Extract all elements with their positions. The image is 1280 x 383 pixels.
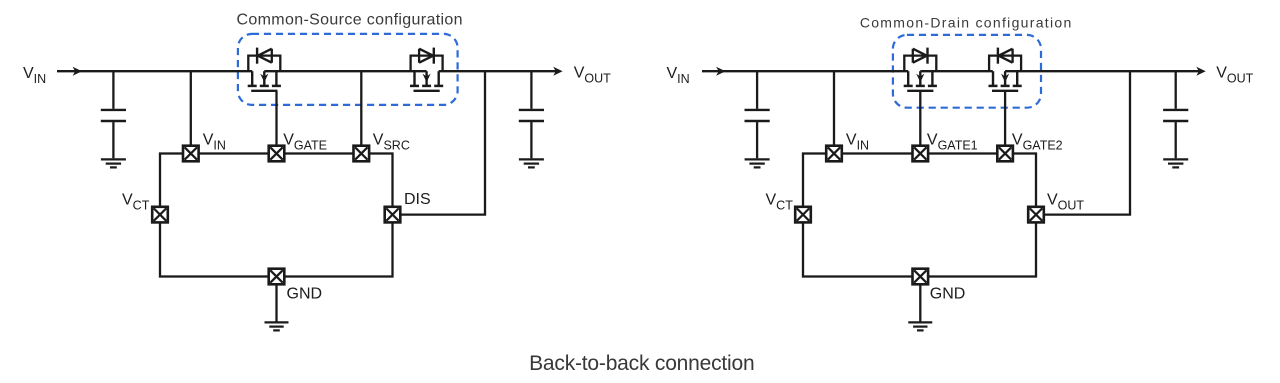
svg-text:VIN: VIN	[23, 65, 46, 86]
transistor Q4 (common-drain right FET)	[989, 48, 1022, 146]
pin GND (right controller)	[913, 269, 929, 285]
pin VIN (left controller)	[183, 146, 199, 162]
transistor Q3 (common-drain left FET)	[904, 48, 937, 146]
pin DIS (left controller)	[385, 207, 401, 223]
wire: DIS to VOUT rail (left circuit)	[400, 71, 485, 214]
output arrow (right circuit)	[1196, 67, 1205, 76]
capacitor C2 output (left circuit)	[519, 71, 544, 158]
pin VGATE1 (right controller)	[913, 146, 929, 162]
Q2 (common-source right FET) gate	[414, 90, 440, 92]
svg-text:VOUT: VOUT	[1216, 65, 1253, 86]
svg-text:VOUT: VOUT	[574, 65, 611, 86]
wire: VIN rail segments (right circuit)	[702, 70, 1200, 72]
Q2 (common-source right FET) body diode	[419, 48, 434, 64]
pin GND (left controller)	[269, 269, 285, 285]
svg-text:GND: GND	[287, 285, 323, 302]
input arrow (left circuit)	[73, 67, 82, 76]
ground (C2 output (left circuit) bottom)	[519, 159, 544, 167]
Q3 (common-drain left FET) body-diode loop wire	[904, 56, 936, 72]
svg-text:VIN: VIN	[203, 132, 226, 153]
wire: VIN rail segments (left circuit)	[57, 70, 557, 72]
svg-text:VIN: VIN	[667, 65, 690, 86]
controller U2 outline (right circuit)	[803, 154, 1036, 277]
pin VCT (left controller)	[152, 207, 168, 223]
Q4 (common-drain right FET) gate	[992, 91, 1018, 146]
capacitor C4 output (right circuit)	[1163, 71, 1188, 158]
ground (C3 input (right circuit) bottom)	[745, 159, 770, 167]
svg-text:DIS: DIS	[404, 191, 431, 208]
svg-text:GND: GND	[930, 285, 966, 302]
Q2 (common-source right FET) drain/body/source contacts	[410, 71, 443, 86]
svg-text:Common-Drain configuration: Common-Drain configuration	[860, 15, 1073, 31]
input arrow (right circuit)	[716, 67, 725, 76]
Q3 (common-drain left FET) body diode	[913, 48, 928, 64]
Q1 (common-source left FET) gate	[251, 91, 277, 146]
svg-text:Back-to-back connection: Back-to-back connection	[529, 352, 754, 375]
pin VGATE2 (right controller)	[997, 146, 1013, 162]
pin VGATE (left controller)	[269, 146, 285, 162]
wire: VIN pin riser (right circuit)	[833, 71, 835, 146]
blue dashed box (Common-Source pair)	[238, 34, 458, 105]
Q4 (common-drain right FET) drain/body/source contacts	[989, 71, 1022, 86]
ground (left controller GND)	[265, 284, 289, 330]
Q2 (common-source right FET) body-diode loop wire	[411, 56, 443, 72]
Q1 (common-source left FET) drain/body/source contacts	[248, 71, 281, 86]
ground (right controller GND)	[908, 284, 932, 330]
svg-text:VCT: VCT	[122, 192, 150, 213]
blue dashed box (Common-Drain pair)	[893, 35, 1041, 108]
Q3 (common-drain left FET) drain/body/source contacts	[904, 71, 937, 86]
svg-text:VOUT: VOUT	[1047, 192, 1084, 213]
pin VIN (right controller)	[826, 146, 842, 162]
transistor Q1 (common-source left FET)	[248, 48, 281, 146]
svg-text:Common-Source configuration: Common-Source configuration	[236, 12, 462, 29]
Q1 (common-source left FET) body diode	[257, 48, 272, 64]
svg-text:VSRC: VSRC	[373, 132, 410, 153]
pin VOUT (right controller)	[1028, 207, 1044, 223]
svg-text:VGATE1: VGATE1	[927, 132, 978, 153]
ground (C1 input (left circuit) bottom)	[101, 159, 126, 167]
output arrow (left circuit)	[553, 67, 562, 76]
svg-text:VCT: VCT	[766, 192, 794, 213]
wire: VOUT pin to VOUT rail (right circuit)	[1044, 71, 1130, 214]
pin VSRC (left controller)	[354, 146, 370, 162]
svg-text:VGATE2: VGATE2	[1012, 132, 1063, 153]
controller U1 outline (left circuit)	[160, 154, 393, 277]
svg-text:VGATE: VGATE	[283, 132, 327, 153]
transistor Q2 (common-source right FET)	[410, 48, 443, 91]
pin VCT (right controller)	[795, 207, 811, 223]
Q3 (common-drain left FET) gate	[907, 91, 933, 146]
Q1 (common-source left FET) body-diode loop wire	[248, 56, 280, 72]
capacitor C1 input (left circuit)	[101, 71, 126, 158]
Q4 (common-drain right FET) body diode	[998, 48, 1013, 64]
wire: VSRC riser (left circuit)	[360, 71, 362, 146]
capacitor C3 input (right circuit)	[745, 71, 770, 158]
Q4 (common-drain right FET) body-diode loop wire	[989, 56, 1021, 72]
wire: VIN pin riser (left circuit)	[190, 71, 192, 146]
ground (C4 output (right circuit) bottom)	[1163, 159, 1188, 167]
svg-text:VIN: VIN	[846, 132, 869, 153]
